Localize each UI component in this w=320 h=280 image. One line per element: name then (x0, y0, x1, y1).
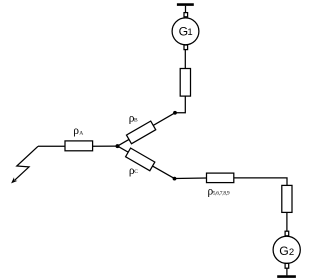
wire (175, 96, 185, 113)
wire (286, 212, 288, 231)
terminal G1 bottom (184, 45, 188, 50)
wire (J3 right) (175, 177, 207, 180)
terminal G2 bottom (285, 263, 289, 268)
ground bar bottom (G2) (277, 275, 296, 278)
svg-text:1: 1 (187, 27, 192, 38)
resistor (G1 branch) (180, 69, 190, 97)
resistor rho-5..9 (207, 173, 234, 183)
label G2 (279, 244, 294, 258)
wire (J1 to J2 diagonal) (118, 113, 176, 146)
wire (234, 178, 287, 186)
label rho-B (129, 113, 138, 125)
svg-text:2: 2 (289, 247, 294, 258)
label G1 (179, 24, 193, 38)
label rho-A (73, 125, 83, 137)
wire (184, 50, 186, 69)
resistor rho-A (65, 141, 93, 151)
terminal G1 top (184, 13, 188, 17)
svg-text:B: B (134, 118, 138, 124)
wire (J1 left) (93, 145, 118, 147)
wire (J1 to J3 diagonal) (118, 146, 175, 179)
wire (38, 145, 65, 147)
fault lightning arrow (15, 146, 38, 180)
node J3 (173, 177, 177, 181)
terminal G2 top (285, 231, 289, 236)
generator G1 (172, 18, 199, 45)
label rho-C (129, 165, 138, 177)
resistor rho-C (126, 148, 155, 171)
svg-text:C: C (134, 169, 138, 175)
node J1 (116, 144, 120, 148)
resistor rho-B (126, 121, 155, 144)
wire (185, 6, 187, 13)
svg-text:G: G (279, 244, 288, 258)
label rho-5,6,7,8,9 (208, 186, 230, 198)
generator G2 (273, 236, 300, 263)
svg-text:5,6,7,8,9: 5,6,7,8,9 (213, 191, 230, 197)
wire (286, 268, 288, 275)
ground bar top (G1) (177, 3, 194, 6)
resistor (G2 branch) (282, 185, 292, 212)
svg-text:A: A (79, 131, 83, 137)
node J2 (173, 111, 177, 115)
